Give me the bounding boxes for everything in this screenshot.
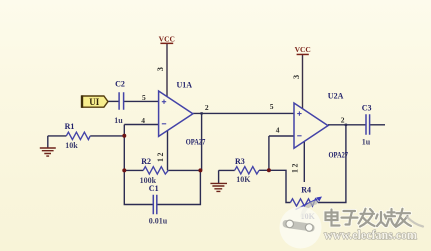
resistor R3 [235,167,259,174]
watermark text 电子发烧友 [326,209,412,227]
watermark logo [280,203,322,249]
svg-text:4: 4 [276,126,280,135]
svg-text:R2: R2 [141,157,151,166]
resistor R4 (potentiometer) [290,197,322,210]
op-amp U1A [159,91,193,136]
wire R1 to node A [90,135,124,137]
wire R2 to node B [168,169,200,171]
svg-text:4: 4 [141,116,145,125]
svg-text:C3: C3 [362,103,372,112]
node A2 junction dot [122,168,126,172]
svg-text:1u: 1u [362,137,371,146]
svg-text:3: 3 [155,67,165,71]
node B junction dot [198,168,202,172]
wire ground1 to R1 [48,136,67,148]
wire ground2 stem [218,170,220,183]
power VCC U1A [159,35,175,45]
wire node C vertical to U2A pin4 [268,136,270,170]
wire C1 right branch [157,170,200,204]
svg-text:5: 5 [270,102,274,111]
svg-text:VCC: VCC [159,35,175,44]
svg-text:10K: 10K [236,175,251,184]
svg-text:VCC: VCC [295,45,311,54]
svg-text:12: 12 [291,162,300,173]
svg-text:OPA27: OPA27 [186,137,206,146]
svg-text:12: 12 [156,151,165,162]
wire U2A pin4 [269,135,294,137]
svg-text:2: 2 [205,103,209,112]
wire U2A VCC stem [302,55,304,109]
node out1 junction [200,112,202,114]
wire C1 left branch [124,170,153,204]
wire U2A pin12 stub [303,142,305,182]
svg-text:10k: 10k [65,141,78,150]
wire node A to R2 [124,169,143,171]
wire U1A pin12 stem [167,130,169,170]
ground (R1) [40,148,56,156]
ground (R3) [210,183,227,191]
svg-text:0.01u: 0.01u [149,216,168,225]
watermark swoosh [407,217,423,227]
svg-text:UI: UI [89,97,99,107]
port UI [82,95,108,107]
svg-text:1u: 1u [114,116,123,125]
wire U1A output feedback drop [201,113,203,170]
svg-text:C2: C2 [115,79,125,88]
power VCC U2A [295,45,311,55]
svg-text:5: 5 [142,93,146,102]
wire U2A output to C3 [328,124,366,126]
wire C2 to U1A pin5 [124,100,159,102]
wire UI port to C2 [108,100,119,102]
svg-text:OPA27: OPA27 [329,150,349,159]
wire node C to R4 [269,170,291,202]
svg-text:R3: R3 [235,157,245,166]
svg-text:U1A: U1A [177,81,193,90]
svg-text:R1: R1 [65,122,75,131]
svg-text:2: 2 [341,115,345,124]
wire U1A pin4 [124,124,158,126]
node C junction dot [267,168,271,172]
svg-text:C1: C1 [149,184,159,193]
svg-text:3: 3 [291,75,301,79]
svg-text:U2A: U2A [328,91,344,100]
svg-text:www.elecfans.com: www.elecfans.com [324,228,418,242]
capacitor C1 [153,195,157,215]
resistor R1 [66,132,90,139]
node out2 junction [345,124,347,126]
capacitor C2 [119,92,124,110]
capacitor C3 [366,114,370,135]
wire ground2 to R3 [219,169,235,171]
resistor R2 [143,167,168,174]
op-amp U2A [294,103,328,148]
wire U1A VCC stem [166,44,168,97]
wire R4 to U2A output feedback [318,125,346,203]
wire C3 to output [370,124,385,126]
wire vertical node A [123,125,125,171]
node A junction dot [122,134,126,138]
wire R3 to node C [259,169,269,171]
svg-text:R4: R4 [301,186,311,195]
wire U1A output to U2A pin5 [193,112,294,114]
